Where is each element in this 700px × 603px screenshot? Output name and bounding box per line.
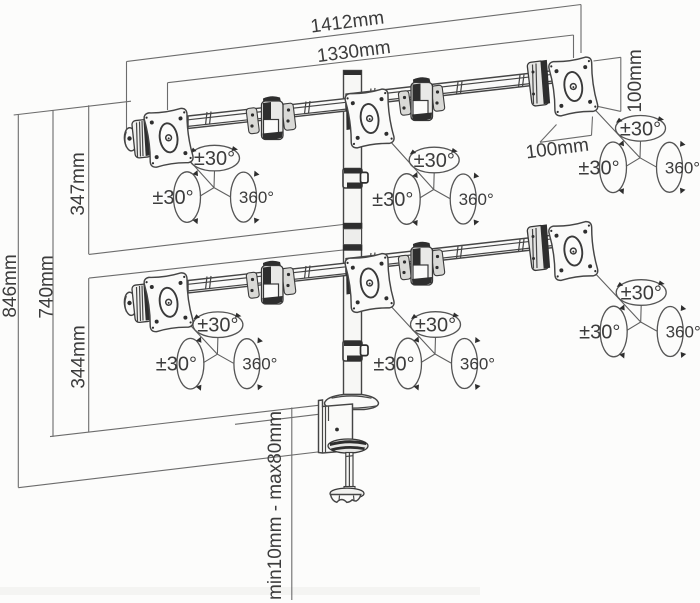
desk top extension (50, 405, 320, 436)
344mm vertical (88, 278, 90, 432)
347mm vertical (88, 105, 90, 254)
svg-text:846mm: 846mm (0, 254, 21, 317)
clamp screw rod (346, 453, 353, 490)
svg-text:min10mm - max80mm: min10mm - max80mm (265, 411, 286, 600)
leader line G1 (169, 138, 214, 188)
rotation group G4 (156, 312, 278, 391)
faint bottom band (0, 587, 480, 595)
svg-text:740mm: 740mm (37, 255, 58, 318)
center pole (343, 71, 362, 395)
bottom extension 846 (18, 451, 326, 488)
clamp lower jaw (328, 439, 368, 453)
svg-text:347mm: 347mm (68, 152, 89, 215)
svg-text:100mm: 100mm (625, 49, 646, 112)
min-max vertical (291, 408, 293, 601)
crossbar row bottom (123, 221, 598, 333)
100mm vertical dim right (594, 57, 621, 111)
rotation group G3 (578, 116, 700, 195)
leader line G3 (573, 87, 640, 158)
rotation group G6 (579, 280, 700, 359)
leader line G5 (370, 283, 435, 354)
crossbar row top (123, 56, 598, 168)
100mm horizontal dim (540, 117, 593, 143)
846mm vertical (17, 115, 19, 488)
mid extension upper (89, 225, 343, 255)
svg-text:344mm: 344mm (69, 325, 90, 388)
mid extension lower (89, 250, 343, 278)
740mm vertical (52, 110, 54, 436)
leader line G6 (574, 250, 641, 322)
pole base cone (325, 395, 379, 410)
dimension 1412mm line (127, 5, 582, 131)
desk front edge (235, 414, 320, 424)
rotation group G1 (152, 145, 274, 224)
left dims top extension (14, 101, 131, 115)
pole collar lower (343, 341, 368, 361)
pole collar upper (343, 169, 368, 189)
clamp knob (330, 487, 364, 503)
rotation group G5 (373, 312, 495, 391)
desk clamp bracket (319, 400, 353, 453)
rotation group G2 (372, 147, 494, 226)
leader line G4 (169, 302, 218, 354)
dimension 1330mm line (168, 35, 574, 110)
leader line G2 (370, 119, 434, 190)
